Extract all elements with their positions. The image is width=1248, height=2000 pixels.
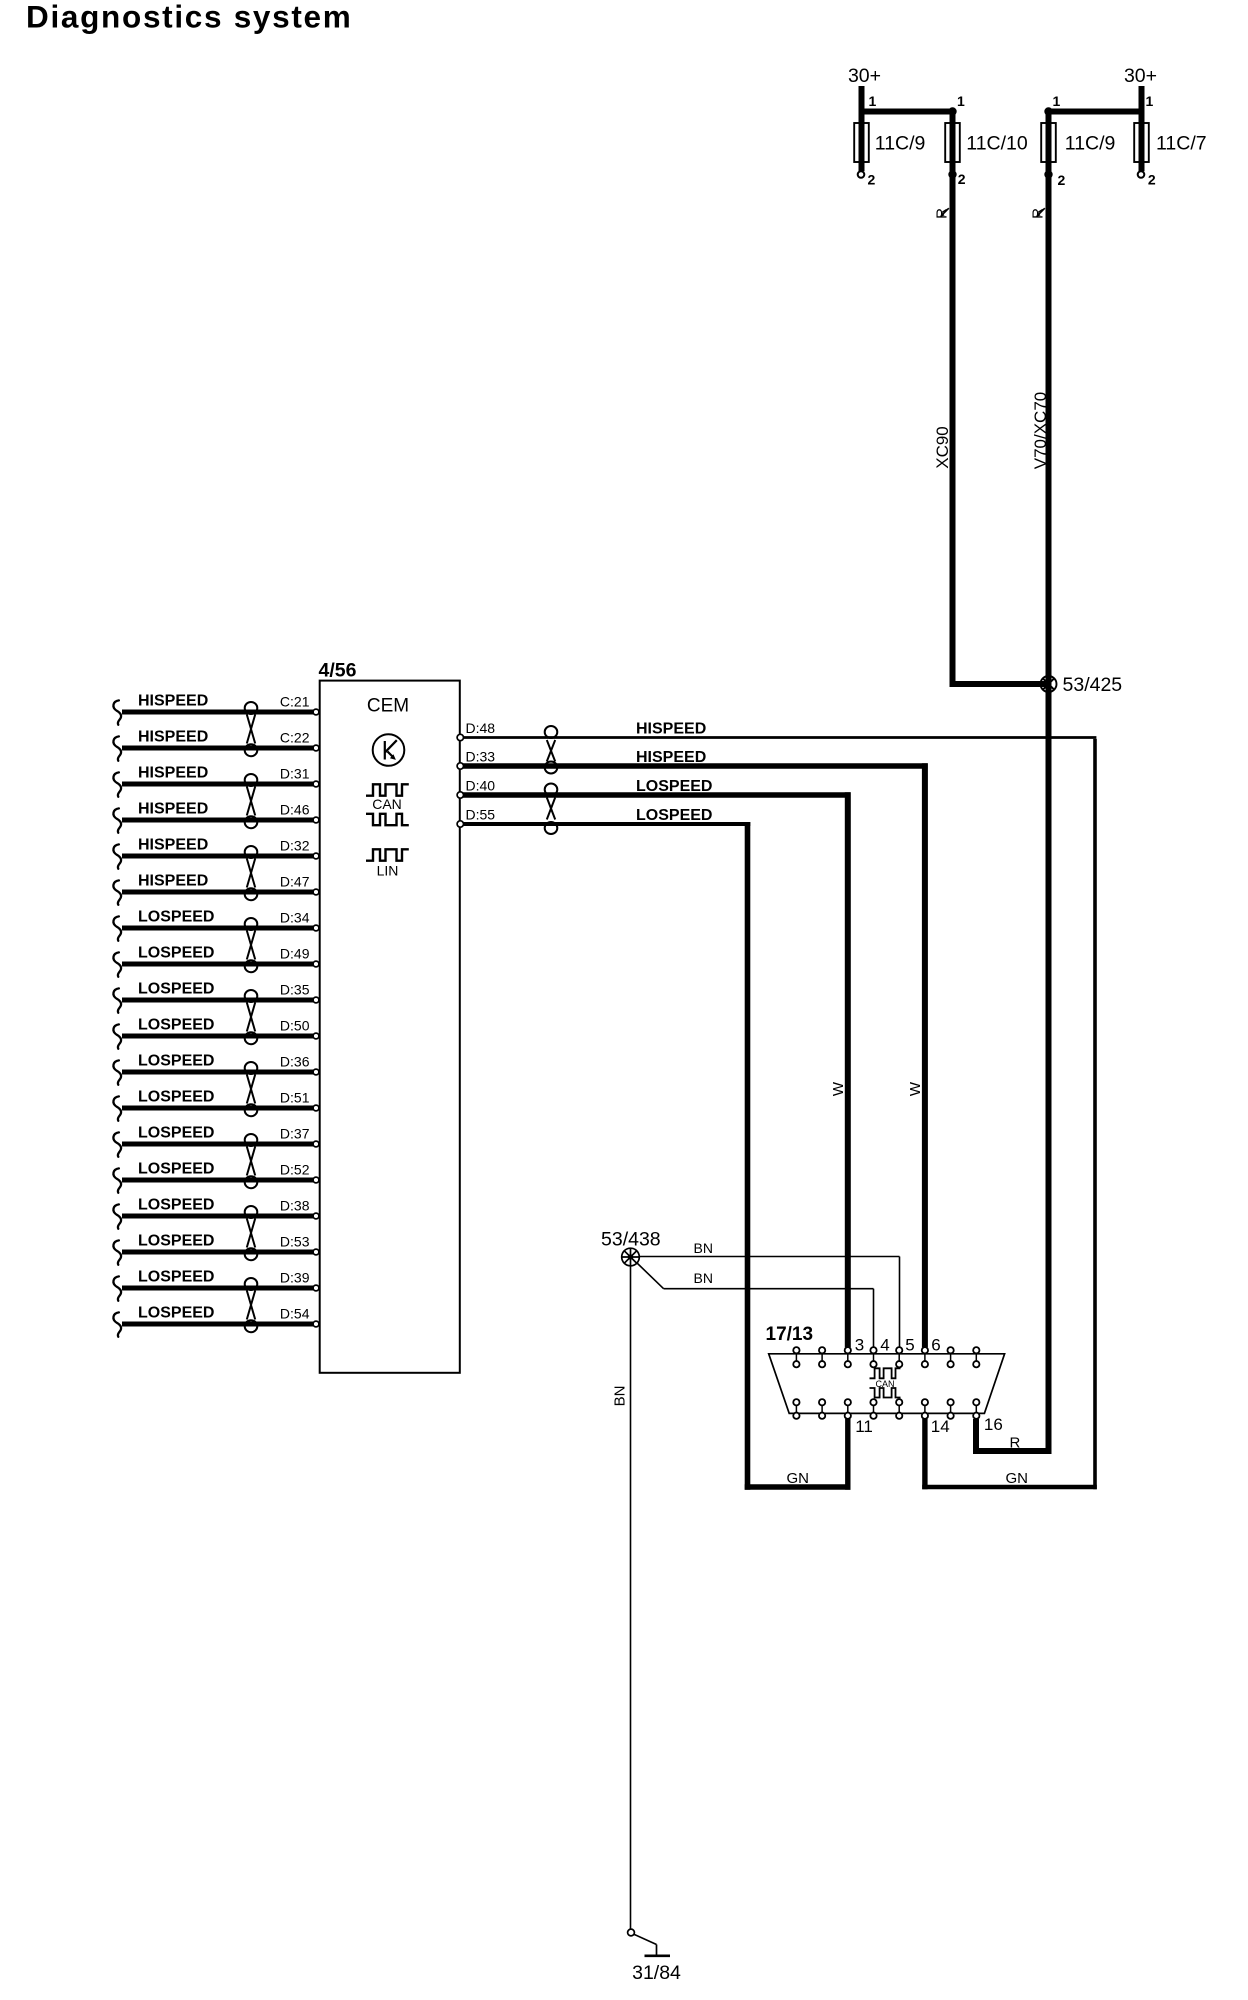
wire LOSPEED to CEM pin D:54 with cut symbol — [113, 1312, 313, 1336]
svg-text:D:31: D:31 — [280, 766, 310, 782]
connector 17/13 top pin column 2 — [819, 1347, 825, 1368]
CEM pin label D:35 — [280, 982, 310, 998]
svg-text:53/425: 53/425 — [1063, 674, 1123, 696]
bus name label LOSPEED (row 18) — [138, 1305, 214, 1322]
svg-text:LIN: LIN — [377, 863, 399, 879]
svg-text:11C/10: 11C/10 — [966, 133, 1028, 155]
pin 2 label of fuse 11C/10 — [958, 171, 966, 187]
connector 17/13 top pin column 5 — [896, 1347, 902, 1368]
twisted-pair symbol rows 3-4 — [245, 774, 258, 828]
svg-text:1: 1 — [869, 93, 877, 109]
wire HISPEED from CEM pin D:48 (thin) — [463, 736, 1096, 739]
connector pin 14 label — [931, 1417, 950, 1436]
wire color label GN (right path) — [1006, 1470, 1029, 1487]
CEM pin label D:50 — [280, 1018, 310, 1034]
supply 30+ label (left group) — [848, 65, 881, 87]
svg-text:3: 3 — [855, 1336, 864, 1355]
svg-text:2: 2 — [868, 172, 876, 188]
pin 2 label of fuse 11C/7 — [1148, 172, 1156, 188]
svg-text:D:34: D:34 — [280, 910, 310, 926]
CEM module box — [320, 681, 460, 1373]
wire: 30+ stub to node 1 (left group) — [859, 86, 865, 115]
twisted-pair symbol D:40/D:55 — [545, 784, 558, 835]
K-line diagnostic symbol in CEM — [373, 734, 405, 766]
CEM pin label D:52 — [280, 1162, 310, 1178]
CEM pin terminal D:32 — [313, 853, 319, 859]
svg-text:LOSPEED: LOSPEED — [138, 909, 214, 926]
svg-text:Diagnostics system: Diagnostics system — [26, 0, 352, 35]
wire LOSPEED to CEM pin D:52 with cut symbol — [113, 1168, 313, 1192]
bus name label LOSPEED (row 13) — [138, 1125, 214, 1142]
svg-text:D:39: D:39 — [280, 1270, 310, 1286]
connector 17/13 body — [769, 1354, 1005, 1414]
bus name label LOSPEED (row 11) — [138, 1053, 214, 1070]
wire LOSPEED to CEM pin D:51 with cut symbol — [113, 1096, 313, 1120]
CEM pin label D:51 — [280, 1090, 310, 1106]
CEM pin terminal D:37 — [313, 1141, 319, 1147]
fuse 11C/9 (left) label — [875, 133, 926, 155]
svg-text:30+: 30+ — [1124, 65, 1157, 87]
connector pin 6 label — [931, 1336, 940, 1355]
svg-text:11C/7: 11C/7 — [1156, 133, 1207, 155]
wire color label W (pin 6 wire) — [907, 1081, 924, 1096]
svg-text:HISPEED: HISPEED — [138, 765, 208, 782]
connector 17/13 top pin column 6 — [922, 1347, 928, 1368]
connector 17/13 bottom pin column 5 — [896, 1399, 902, 1419]
svg-text:D:54: D:54 — [280, 1306, 310, 1322]
svg-text:HISPEED: HISPEED — [138, 837, 208, 854]
svg-text:HISPEED: HISPEED — [138, 801, 208, 818]
LIN symbol label in CEM — [377, 863, 399, 879]
svg-text:4: 4 — [880, 1336, 889, 1355]
CEM pin terminal D:40 — [457, 792, 463, 798]
CEM pin terminal D:55 — [457, 821, 463, 827]
fuse 11C/10 body — [945, 123, 960, 162]
wire LOSPEED to CEM pin D:37 with cut symbol — [113, 1132, 313, 1156]
wire: node-1 bus between fuse 11C/9 and 11C/10 — [859, 109, 956, 115]
wire LOSPEED to CEM pin D:34 with cut symbol — [113, 916, 313, 940]
fuse 11C/10 label — [966, 133, 1028, 155]
wire color label R (pin 16 wire) — [1010, 1435, 1021, 1452]
ground point 53/438 symbol — [622, 1248, 640, 1266]
junction 53/425 symbol — [1041, 676, 1057, 692]
connector 17/13 top pin column 8 — [973, 1347, 979, 1368]
svg-text:LOSPEED: LOSPEED — [138, 1053, 214, 1070]
supply 30+ label (right group) — [1124, 65, 1157, 87]
wire color label GN (left path) — [787, 1470, 810, 1487]
wire R from junction 53/425 to connector pin 16 — [973, 1419, 1052, 1454]
pin 2 label of fuse 11C/9 (right) — [1058, 172, 1066, 188]
bus name label HISPEED (row 4) — [138, 801, 208, 818]
svg-text:XC90: XC90 — [933, 426, 952, 469]
CEM label — [367, 696, 409, 717]
svg-text:D:50: D:50 — [280, 1018, 310, 1034]
svg-text:6: 6 — [931, 1336, 940, 1355]
CEM pin terminal D:46 — [313, 817, 319, 823]
LIN symbol wave in CEM — [366, 849, 409, 860]
wire LOSPEED from CEM pin D:55 down (GN path left) — [463, 822, 851, 1490]
svg-text:16: 16 — [984, 1415, 1003, 1434]
connector 17/13 top pin column 4 — [870, 1347, 876, 1368]
wire BN from 53/438 to connector pin 5 — [639, 1257, 900, 1348]
svg-text:D:33: D:33 — [466, 749, 496, 765]
svg-text:BN: BN — [694, 1240, 713, 1256]
svg-text:D:38: D:38 — [280, 1198, 310, 1214]
svg-text:R: R — [1010, 1435, 1021, 1452]
svg-text:C:21: C:21 — [280, 694, 310, 710]
svg-text:D:48: D:48 — [466, 720, 496, 736]
ground 31/84 terminal circle — [628, 1929, 635, 1936]
twisted-pair symbol rows 11-12 — [245, 1062, 258, 1116]
connector 17/13 bottom pin column 6 — [922, 1399, 928, 1419]
CEM pin terminal D:52 — [313, 1177, 319, 1183]
connector 17/13 top pin column 7 — [947, 1347, 953, 1368]
CEM pin label D:38 — [280, 1198, 310, 1214]
svg-text:LOSPEED: LOSPEED — [138, 1233, 214, 1250]
CEM pin label D:47 — [280, 874, 310, 890]
bus name label HISPEED (D:48) — [636, 721, 706, 738]
CEM pin label D:31 — [280, 766, 310, 782]
svg-text:5: 5 — [905, 1336, 914, 1355]
wire: XC90 wire horizontal into junction 53/425 — [950, 681, 1049, 687]
svg-text:GN: GN — [1006, 1470, 1029, 1487]
CEM pin terminal D:47 — [313, 889, 319, 895]
wire R: fuse 11C/10 down to junction 53/425 (XC90 wire) — [950, 112, 956, 688]
svg-text:D:49: D:49 — [280, 946, 310, 962]
wire HISPEED to CEM pin D:31 with cut symbol — [113, 772, 313, 796]
connector 17/13 designation — [766, 1324, 814, 1345]
connector 17/13 bottom pin column 8 — [973, 1399, 979, 1419]
bus name label HISPEED (D:33) — [636, 749, 706, 766]
svg-text:LOSPEED: LOSPEED — [138, 1089, 214, 1106]
CEM pin terminal D:34 — [313, 925, 319, 931]
wire: through fuse 11C/9 (left) — [859, 112, 865, 172]
bus name label LOSPEED (D:40) — [636, 778, 712, 795]
junction 53/425 label — [1063, 674, 1123, 696]
svg-text:W: W — [907, 1081, 924, 1096]
pin 2 dot of fuse 11C/10 — [948, 170, 956, 178]
wire LOSPEED from CEM pin D:40 to connector pin 3 — [463, 792, 851, 1347]
svg-text:W: W — [830, 1081, 847, 1096]
bus name label LOSPEED (row 16) — [138, 1233, 214, 1250]
twisted-pair symbol rows 7-8 — [245, 918, 258, 972]
twisted-pair symbol rows 15-16 — [245, 1206, 258, 1260]
wire HISPEED to CEM pin D:46 with cut symbol — [113, 808, 313, 832]
CEM pin label D:40 — [466, 778, 496, 794]
svg-text:BN: BN — [694, 1270, 713, 1286]
wire LOSPEED to CEM pin D:38 with cut symbol — [113, 1204, 313, 1228]
twisted-pair symbol rows 17-18 — [245, 1278, 258, 1332]
CEM pin terminal D:48 — [457, 734, 463, 740]
ground 31/84 symbol — [634, 1934, 670, 1956]
bus name label LOSPEED (row 12) — [138, 1089, 214, 1106]
CEM pin label D:46 — [280, 802, 310, 818]
wire GN return of D:48 to connector pin 14 — [922, 739, 1097, 1489]
CAN symbol lower wave in connector — [870, 1388, 901, 1398]
CEM pin terminal D:49 — [313, 961, 319, 967]
CEM pin terminal D:53 — [313, 1249, 319, 1255]
fuse 11C/7 body — [1134, 123, 1149, 162]
svg-text:LOSPEED: LOSPEED — [138, 1269, 214, 1286]
twisted-pair symbol D:48/D:33 — [545, 726, 558, 774]
bus name label HISPEED (row 1) — [138, 693, 208, 710]
wire color label BN (pin 5 wire) — [694, 1240, 713, 1256]
svg-text:CAN: CAN — [372, 796, 402, 812]
twisted-pair symbol rows 1-2 — [245, 702, 258, 756]
wire HISPEED to CEM pin C:22 with cut symbol — [113, 736, 313, 760]
wire BN from 53/438 down to ground 31/84 — [630, 1266, 632, 1929]
bus name label LOSPEED (row 7) — [138, 909, 214, 926]
svg-text:HISPEED: HISPEED — [636, 749, 706, 766]
svg-text:30+: 30+ — [848, 65, 881, 87]
wire: through fuse 11C/7 — [1139, 112, 1145, 172]
twisted-pair symbol rows 13-14 — [245, 1134, 258, 1188]
connector 17/13 top pin column 1 — [793, 1347, 799, 1368]
svg-text:4/56: 4/56 — [319, 660, 357, 682]
CEM pin terminal C:22 — [313, 745, 319, 751]
svg-text:2: 2 — [958, 171, 966, 187]
connector pin 16 label — [984, 1415, 1003, 1434]
CEM pin label D:32 — [280, 838, 310, 854]
CEM pin label D:36 — [280, 1054, 310, 1070]
bus name label LOSPEED (D:55) — [636, 807, 712, 824]
connector 17/13 top pin column 3 — [845, 1347, 851, 1368]
CAN symbol upper wave in CEM — [366, 784, 409, 795]
bus name label LOSPEED (row 8) — [138, 945, 214, 962]
bus name label LOSPEED (row 9) — [138, 981, 214, 998]
CEM pin terminal D:38 — [313, 1213, 319, 1219]
svg-text:D:35: D:35 — [280, 982, 310, 998]
connector 17/13 bottom pin column 4 — [870, 1399, 876, 1419]
svg-text:D:52: D:52 — [280, 1162, 310, 1178]
wire color label W (pin 3 wire) — [830, 1081, 847, 1096]
svg-text:53/438: 53/438 — [601, 1229, 661, 1251]
wire BN from 53/438 to connector pin 4 — [637, 1263, 874, 1348]
CEM pin label D:33 — [466, 749, 496, 765]
CEM pin terminal D:50 — [313, 1033, 319, 1039]
pin 1 label of fuse 11C/10 — [957, 93, 965, 109]
svg-text:D:37: D:37 — [280, 1126, 310, 1142]
connector 17/13 bottom pin column 2 — [819, 1399, 825, 1419]
wire color label R (XC90 wire) — [934, 208, 951, 219]
svg-text:HISPEED: HISPEED — [138, 873, 208, 890]
connector pin 11 label — [855, 1417, 873, 1436]
ground point 53/438 label — [601, 1229, 661, 1251]
svg-text:11: 11 — [855, 1417, 873, 1436]
wire HISPEED to CEM pin C:21 with cut symbol — [113, 700, 313, 724]
wire HISPEED to CEM pin D:47 with cut symbol — [113, 880, 313, 904]
pin 1 label of fuse 11C/7 — [1146, 93, 1154, 109]
CAN symbol upper wave in connector — [870, 1368, 901, 1378]
svg-text:C:22: C:22 — [280, 730, 310, 746]
pin 2 dot of fuse 11C/9 (right) — [1044, 170, 1052, 178]
svg-text:LOSPEED: LOSPEED — [138, 1197, 214, 1214]
svg-text:HISPEED: HISPEED — [138, 693, 208, 710]
svg-text:D:36: D:36 — [280, 1054, 310, 1070]
fuse 11C/7 label — [1156, 133, 1207, 155]
svg-text:D:53: D:53 — [280, 1234, 310, 1250]
bus name label HISPEED (row 6) — [138, 873, 208, 890]
wire HISPEED from CEM pin D:33 to connector pin 6 — [463, 763, 928, 1347]
svg-text:LOSPEED: LOSPEED — [636, 778, 712, 795]
wire R: fuse 11C/9 down through junction 53/425 (V70/XC70 wire) — [1046, 112, 1052, 1455]
svg-text:11C/9: 11C/9 — [875, 133, 926, 155]
CEM pin label D:39 — [280, 1270, 310, 1286]
pin 2 label of fuse 11C/9 (left) — [868, 172, 876, 188]
title: Diagnostics system — [26, 0, 352, 35]
wire LOSPEED to CEM pin D:36 with cut symbol — [113, 1060, 313, 1084]
CEM pin label C:21 — [280, 694, 310, 710]
connector 17/13 bottom pin column 3 — [845, 1399, 851, 1419]
svg-text:11C/9: 11C/9 — [1065, 133, 1116, 155]
svg-text:HISPEED: HISPEED — [636, 721, 706, 738]
wire color label R (V70/XC70 wire) — [1030, 208, 1047, 219]
arrow on R label (V70/XC70 wire) — [1036, 208, 1045, 217]
junction dot at 11C/10 pin 1 — [948, 107, 956, 115]
svg-text:LOSPEED: LOSPEED — [138, 945, 214, 962]
svg-text:14: 14 — [931, 1417, 950, 1436]
svg-text:1: 1 — [1053, 93, 1061, 109]
svg-text:17/13: 17/13 — [766, 1324, 814, 1345]
wire LOSPEED to CEM pin D:53 with cut symbol — [113, 1240, 313, 1264]
twisted-pair symbol rows 5-6 — [245, 846, 258, 900]
bus name label LOSPEED (row 15) — [138, 1197, 214, 1214]
svg-text:GN: GN — [787, 1470, 810, 1487]
fuse 11C/9 (right) body — [1041, 123, 1056, 162]
svg-text:LOSPEED: LOSPEED — [636, 807, 712, 824]
pin 1 label of fuse 11C/9 (left) — [869, 93, 877, 109]
connector pin 5 label — [905, 1336, 914, 1355]
CEM pin terminal D:33 — [457, 763, 463, 769]
pin 2 open terminal of fuse 11C/7 — [1138, 171, 1145, 178]
svg-text:HISPEED: HISPEED — [138, 729, 208, 746]
connector 17/13 bottom pin column 1 — [793, 1399, 799, 1419]
connector 17/13 bottom pin column 7 — [947, 1399, 953, 1419]
svg-text:LOSPEED: LOSPEED — [138, 1305, 214, 1322]
svg-text:LOSPEED: LOSPEED — [138, 1125, 214, 1142]
CEM pin label D:37 — [280, 1126, 310, 1142]
wire HISPEED to CEM pin D:32 with cut symbol — [113, 844, 313, 868]
CEM pin label D:49 — [280, 946, 310, 962]
svg-text:1: 1 — [957, 93, 965, 109]
CEM pin label D:48 — [466, 720, 496, 736]
CAN symbol label in connector — [875, 1379, 894, 1389]
wire: node-1 bus between fuse 11C/9 and 11C/7 — [1046, 109, 1145, 115]
bus name label HISPEED (row 5) — [138, 837, 208, 854]
svg-text:LOSPEED: LOSPEED — [138, 981, 214, 998]
svg-text:D:46: D:46 — [280, 802, 310, 818]
connector pin 4 label — [880, 1336, 889, 1355]
CEM pin label D:55 — [466, 807, 496, 823]
wire model label V70/XC70 — [1031, 392, 1050, 470]
CAN symbol label in CEM — [372, 796, 402, 812]
svg-text:D:51: D:51 — [280, 1090, 310, 1106]
svg-text:D:32: D:32 — [280, 838, 310, 854]
CAN symbol lower wave in CEM — [366, 814, 409, 825]
bus name label LOSPEED (row 17) — [138, 1269, 214, 1286]
wire color label BN (ground wire) — [612, 1386, 629, 1407]
fuse 11C/9 (left) body — [854, 123, 869, 162]
connector pin 3 label — [855, 1336, 864, 1355]
svg-text:LOSPEED: LOSPEED — [138, 1017, 214, 1034]
bus name label LOSPEED (row 14) — [138, 1161, 214, 1178]
svg-text:1: 1 — [1146, 93, 1154, 109]
CEM pin terminal D:35 — [313, 997, 319, 1003]
CEM pin label D:54 — [280, 1306, 310, 1322]
svg-text:D:47: D:47 — [280, 874, 310, 890]
arrow on R label (XC90 wire) — [940, 208, 949, 217]
wire color label BN (pin 4 wire) — [694, 1270, 713, 1286]
CEM pin terminal D:54 — [313, 1321, 319, 1327]
svg-text:31/84: 31/84 — [632, 1962, 681, 1984]
bus name label LOSPEED (row 10) — [138, 1017, 214, 1034]
CEM pin label D:34 — [280, 910, 310, 926]
pin 2 open terminal of fuse 11C/9 (left) — [858, 171, 865, 178]
junction dot at right 11C/9 pin 1 — [1044, 107, 1052, 115]
svg-text:LOSPEED: LOSPEED — [138, 1161, 214, 1178]
CEM pin terminal D:31 — [313, 781, 319, 787]
wire: 30+ stub to node 1 (right group) — [1139, 86, 1145, 115]
svg-text:2: 2 — [1148, 172, 1156, 188]
svg-text:D:55: D:55 — [466, 807, 496, 823]
wire LOSPEED to CEM pin D:39 with cut symbol — [113, 1276, 313, 1300]
svg-text:BN: BN — [612, 1386, 629, 1407]
svg-text:D:40: D:40 — [466, 778, 496, 794]
CEM pin label D:53 — [280, 1234, 310, 1250]
CEM pin terminal C:21 — [313, 709, 319, 715]
CEM pin terminal D:39 — [313, 1285, 319, 1291]
CEM module designation 4/56 — [319, 660, 357, 682]
wire LOSPEED to CEM pin D:35 with cut symbol — [113, 988, 313, 1012]
svg-text:CEM: CEM — [367, 696, 409, 717]
wire model label XC90 — [933, 426, 952, 469]
pin 1 label of fuse 11C/9 (right) — [1053, 93, 1061, 109]
CEM pin terminal D:51 — [313, 1105, 319, 1111]
svg-text:2: 2 — [1058, 172, 1066, 188]
bus name label HISPEED (row 3) — [138, 765, 208, 782]
svg-text:V70/XC70: V70/XC70 — [1031, 392, 1050, 470]
ground 31/84 label — [632, 1962, 681, 1984]
bus name label HISPEED (row 2) — [138, 729, 208, 746]
wire LOSPEED to CEM pin D:49 with cut symbol — [113, 952, 313, 976]
CEM pin terminal D:36 — [313, 1069, 319, 1075]
twisted-pair symbol rows 9-10 — [245, 990, 258, 1044]
CEM pin label C:22 — [280, 730, 310, 746]
wire LOSPEED to CEM pin D:50 with cut symbol — [113, 1024, 313, 1048]
fuse 11C/9 (right) label — [1065, 133, 1116, 155]
